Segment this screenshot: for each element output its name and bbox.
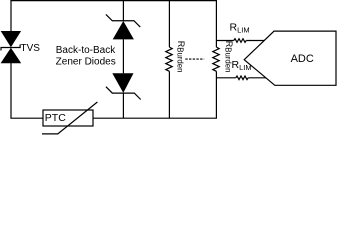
wire bottom bus right of PTC: [93, 117, 218, 119]
svg-text:Burden: Burden: [175, 47, 184, 72]
PTC thermistor box: [43, 110, 93, 126]
dashed line between burden resistors: [185, 58, 204, 60]
svg-text:Back-to-Back: Back-to-Back: [56, 45, 116, 56]
resistor R LIM bottom (zigzag): [236, 76, 248, 80]
wire top ADC branch: [216, 40, 233, 42]
svg-text:Zener Diodes: Zener Diodes: [56, 57, 116, 68]
PTC diagonal strike with foot: [42, 102, 97, 134]
svg-text:PTC: PTC: [45, 112, 66, 124]
wire bottom bus left of PTC: [10, 117, 43, 119]
wire between zener diodes: [122, 39, 124, 73]
zener diode bottom (cathode down): [106, 73, 141, 99]
wire bottom ADC branch: [216, 77, 235, 79]
wire R burden 2 branch top: [215, 1, 217, 47]
svg-text:TVS: TVS: [21, 43, 41, 54]
resistor R LIM top (zigzag): [234, 39, 246, 43]
wire R burden 1 branch bottom: [168, 71, 170, 118]
ADC block: [244, 31, 336, 85]
wire R burden 2 branch bottom: [215, 71, 217, 118]
wire R burden 1 branch top: [168, 1, 170, 47]
svg-text:ADC: ADC: [291, 53, 314, 65]
wire left vertical TVS branch: [10, 1, 12, 119]
resistor R burden 1 (zigzag): [166, 47, 172, 71]
wire top bus: [10, 0, 217, 2]
TVS bidirectional suppressor diode: [1, 31, 22, 63]
wire from R LIM bottom to ADC: [248, 77, 266, 79]
wire zener branch bottom: [122, 93, 124, 118]
label R Burden 1 (rotated): [175, 41, 186, 73]
wire zener branch top: [122, 1, 124, 21]
zener diode top (cathode up): [106, 14, 140, 39]
wire from R LIM top to ADC: [246, 40, 264, 42]
resistor R burden 2 (zigzag): [213, 47, 219, 71]
label R Burden 2 (rotated): [223, 41, 234, 73]
